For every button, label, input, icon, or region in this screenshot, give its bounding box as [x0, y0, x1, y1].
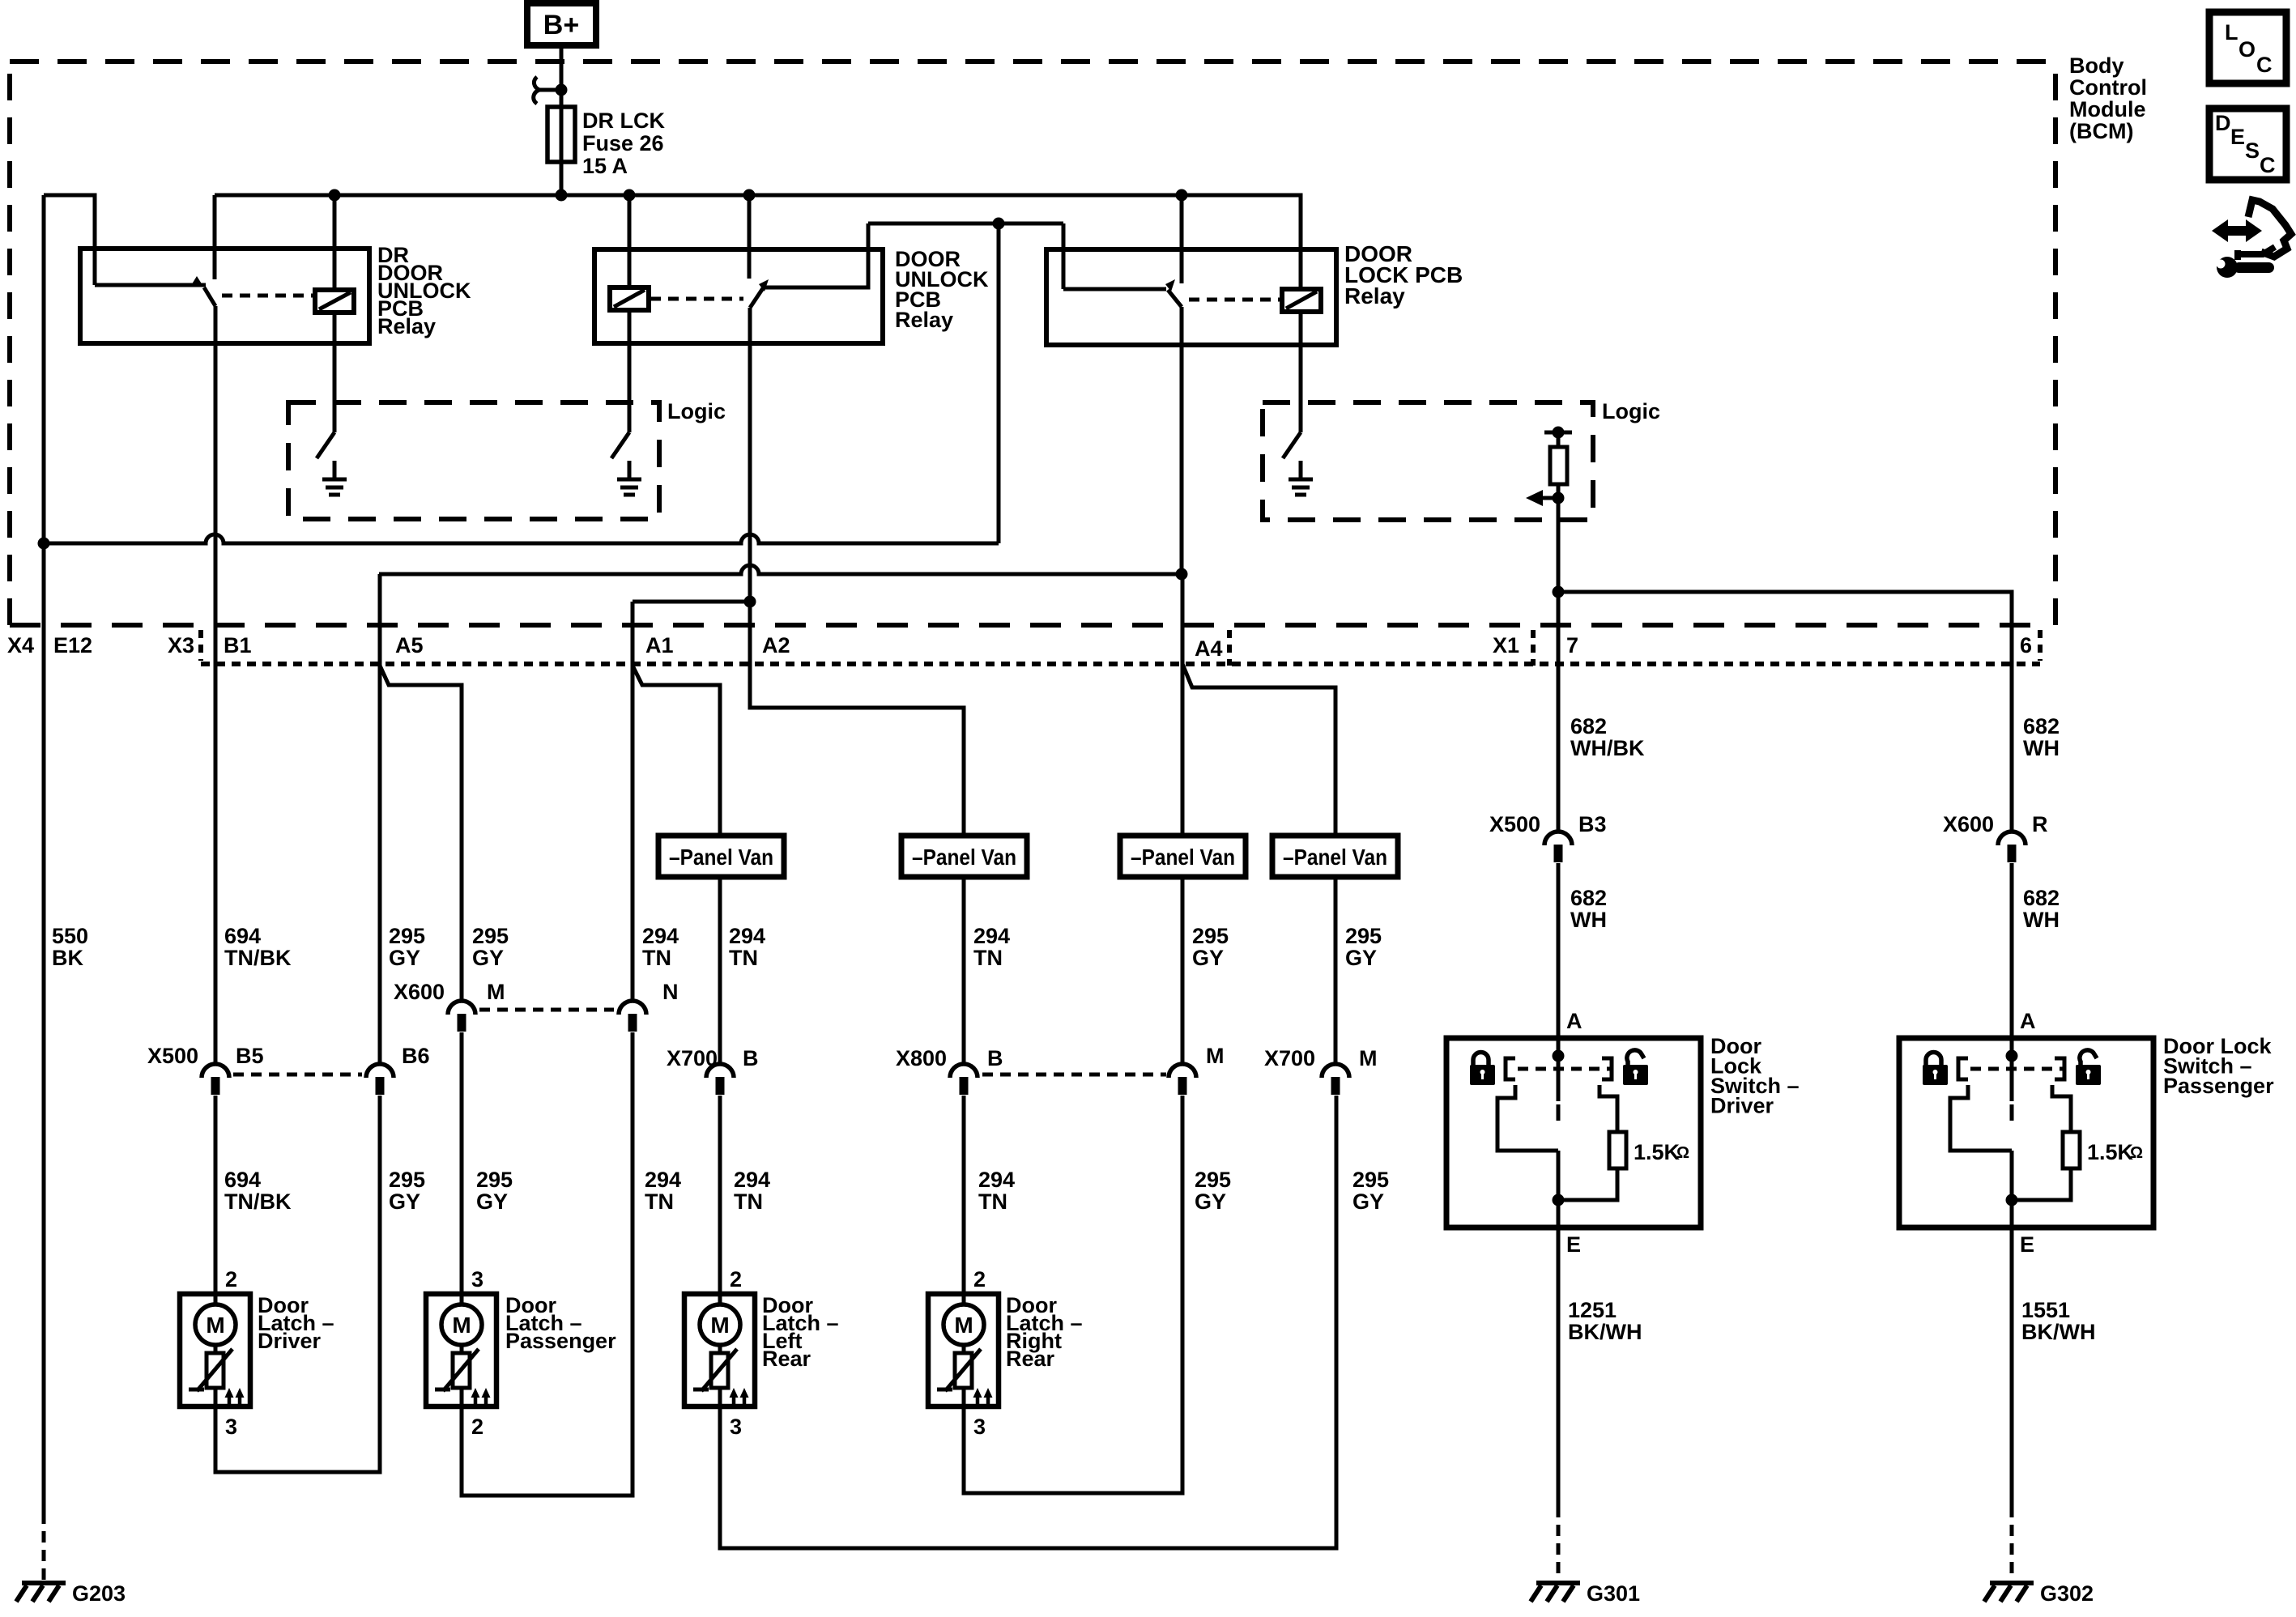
- junction dot fuse clip: [556, 84, 568, 96]
- wire K2 output down to A1/A2: [748, 308, 752, 602]
- junction dot bus at K3 feed: [1176, 189, 1188, 202]
- connector cap X1: [1531, 630, 1536, 666]
- svg-text:1251: 1251: [1568, 1298, 1617, 1322]
- label wire 295 GY col7 lower: [1195, 1168, 1231, 1214]
- wire 295 GY A5 to B6: [378, 574, 382, 1063]
- svg-text:E: E: [2230, 125, 2245, 149]
- svg-text:X700: X700: [1264, 1046, 1315, 1070]
- svg-text:DR LCK: DR LCK: [582, 109, 665, 133]
- logic feed stub bar: [1544, 431, 1572, 435]
- svg-text:2: 2: [471, 1415, 483, 1439]
- svg-text:295: 295: [1192, 924, 1229, 948]
- DESC reference box: [2209, 109, 2286, 180]
- junction dot A1/A2 node: [744, 596, 756, 608]
- label relay K3 DOOR LOCK PCB Relay: [1344, 241, 1463, 309]
- svg-text:Driver: Driver: [1710, 1094, 1774, 1118]
- junction dot bus at K2 feed: [743, 189, 756, 202]
- svg-text:X600: X600: [1943, 812, 1994, 836]
- svg-text:682: 682: [1570, 714, 1607, 738]
- label X500 right: [1489, 812, 1540, 836]
- wire 294 TN X700-B to left rear latch: [718, 1096, 722, 1294]
- wire net W to relay contacts: [868, 222, 1063, 226]
- svg-text:GY: GY: [476, 1189, 508, 1214]
- svg-text:2: 2: [730, 1267, 742, 1291]
- svg-text:294: 294: [734, 1168, 770, 1192]
- svg-text:GY: GY: [1195, 1189, 1226, 1214]
- label wire 694 TN/BK lower: [224, 1168, 292, 1214]
- svg-text:Rear: Rear: [762, 1347, 811, 1371]
- BCM dashed border top: [10, 59, 2055, 64]
- svg-text:Passenger: Passenger: [2163, 1074, 2274, 1098]
- svg-text:A5: A5: [395, 633, 424, 657]
- label pin A4: [1195, 636, 1223, 661]
- relay K3 arm riser from ground net: [1062, 223, 1066, 289]
- svg-text:GY: GY: [1192, 946, 1224, 970]
- label wire 682 WH col right lower: [2023, 886, 2060, 932]
- svg-text:Body: Body: [2069, 53, 2124, 78]
- relay K2 mech link dashed: [650, 297, 743, 301]
- label pin B X700: [743, 1046, 759, 1070]
- relay K1 coil box: [315, 290, 354, 313]
- wire rail A riser: [997, 223, 1001, 543]
- wire dashed to G301: [1557, 1506, 1561, 1580]
- svg-text:BK: BK: [52, 946, 83, 970]
- label G203: [72, 1581, 126, 1606]
- label wire 294 TN col6 upper: [973, 924, 1010, 970]
- connector row long dashed: [10, 623, 2049, 628]
- svg-text:TN: TN: [729, 946, 758, 970]
- svg-text:TN: TN: [642, 946, 671, 970]
- svg-text:3: 3: [471, 1267, 483, 1291]
- connector X600-N: [619, 1001, 646, 1032]
- relay K1 fixed contact from bus: [213, 195, 217, 279]
- door latch passenger (motor M): [426, 1267, 616, 1439]
- svg-text:295: 295: [472, 924, 509, 948]
- svg-text:M: M: [452, 1313, 471, 1338]
- fuse holder clip: [534, 77, 561, 104]
- wire ground feed bridge (550 BK to relay arm): [44, 195, 95, 285]
- wire coil K2 to logic switch: [628, 310, 632, 432]
- wire coil K1 from bus: [333, 195, 337, 290]
- label wire 294 TN col5 lower: [734, 1168, 770, 1214]
- relay K3 arm: [1063, 287, 1166, 291]
- connector X500-B3: [1544, 832, 1572, 862]
- wire 294 TN PV2 to X800-B: [962, 877, 966, 1063]
- label pin B X800: [987, 1046, 1003, 1070]
- label X500: [147, 1044, 198, 1068]
- door latch left rear (motor M): [684, 1267, 839, 1439]
- junction dot bus at fuse: [556, 189, 568, 202]
- label Logic 2: [1602, 399, 1660, 423]
- svg-text:X3: X3: [168, 633, 194, 657]
- connector X800-B: [950, 1064, 978, 1095]
- wire 295 GY M to passenger latch: [460, 1032, 464, 1294]
- svg-text:O: O: [2238, 37, 2256, 62]
- svg-text:Ω: Ω: [1676, 1144, 1689, 1162]
- svg-text:A: A: [1566, 1009, 1582, 1033]
- option box -Panel Van 2: [901, 836, 1027, 877]
- svg-text:294: 294: [978, 1168, 1015, 1192]
- label wire 694 TN/BK upper: [224, 924, 292, 970]
- label relay K1 DR DOOR UNLOCK PCB Relay: [377, 243, 471, 338]
- svg-text:Relay: Relay: [895, 308, 953, 332]
- svg-text:295: 295: [1195, 1168, 1231, 1192]
- junction dot net W riser: [993, 218, 1005, 230]
- relay K1 arm: [95, 283, 206, 287]
- svg-text:M: M: [954, 1313, 973, 1338]
- relay K1 mech link dashed: [222, 294, 313, 298]
- svg-text:B1: B1: [224, 633, 252, 657]
- svg-text:15 A: 15 A: [582, 154, 628, 178]
- svg-text:G203: G203: [72, 1581, 126, 1606]
- ground G301: [1531, 1583, 1580, 1602]
- svg-text:B+: B+: [543, 10, 579, 40]
- svg-text:GY: GY: [389, 1189, 420, 1214]
- svg-text:7: 7: [1566, 633, 1578, 657]
- option box -Panel Van 4: [1272, 836, 1398, 877]
- relay K1 blade: [204, 287, 215, 306]
- svg-text:–Panel Van: –Panel Van: [912, 845, 1016, 870]
- svg-text:TN/BK: TN/BK: [224, 946, 292, 970]
- svg-text:A4: A4: [1195, 636, 1223, 661]
- wire K3 output down to rail: [1180, 307, 1184, 574]
- battery feed B+ box: [527, 3, 596, 45]
- relay K2 NC contact wire: [765, 223, 868, 287]
- svg-text:Logic: Logic: [667, 399, 726, 423]
- logic switch 3 blade: [1283, 432, 1301, 458]
- svg-text:M: M: [1359, 1046, 1378, 1070]
- ground symbol logic switch 2: [617, 461, 641, 495]
- link X600 M-N dashed: [479, 1008, 614, 1012]
- wire ground rail A with hops: [44, 534, 999, 543]
- label fuse DR LCK / Fuse 26 / 15 A: [582, 109, 665, 178]
- svg-text:B: B: [987, 1046, 1003, 1070]
- wire main B+ bus: [215, 195, 1301, 289]
- label pin A2: [762, 633, 790, 657]
- label pin M X800: [1206, 1044, 1225, 1068]
- junction dot arrow node: [1553, 492, 1565, 504]
- connector X600-R: [1998, 832, 2026, 862]
- svg-text:694: 694: [224, 1168, 261, 1192]
- svg-text:X500: X500: [1489, 812, 1540, 836]
- junction dot resistor top: [1553, 427, 1565, 439]
- label X600 right: [1943, 812, 1994, 836]
- junction dot X1 branch: [1553, 586, 1565, 598]
- svg-text:Ω: Ω: [2130, 1144, 2143, 1162]
- label wire 294 TN col6 lower: [978, 1168, 1015, 1214]
- label X800: [896, 1046, 947, 1070]
- BCM dashed border right: [2053, 62, 2058, 625]
- label pin A1: [645, 633, 674, 657]
- label X600: [394, 980, 445, 1004]
- svg-text:M: M: [487, 980, 505, 1004]
- svg-text:R: R: [2032, 812, 2048, 836]
- svg-text:(BCM): (BCM): [2069, 119, 2133, 143]
- label pin R: [2032, 812, 2048, 836]
- svg-text:3: 3: [225, 1415, 237, 1439]
- svg-text:TN: TN: [978, 1189, 1007, 1214]
- label wire 682 WH driver: [1570, 886, 1607, 932]
- label pin N X600: [662, 980, 679, 1004]
- svg-text:550: 550: [52, 924, 88, 948]
- svg-text:D: D: [2215, 111, 2231, 135]
- relay K3 coil box: [1282, 289, 1321, 312]
- label X700 left: [667, 1046, 718, 1070]
- wire A4 jog to Panel Van 4: [1182, 664, 1335, 836]
- relay K1 arm arrowhead: [190, 276, 202, 287]
- svg-text:BK/WH: BK/WH: [2021, 1320, 2095, 1344]
- label relay K2 DOOR UNLOCK PCB Relay: [895, 247, 989, 332]
- svg-text:X1: X1: [1493, 633, 1519, 657]
- door lock switch driver: [1446, 1009, 1800, 1257]
- svg-text:Module: Module: [2069, 97, 2146, 121]
- svg-text:G302: G302: [2040, 1581, 2094, 1606]
- svg-text:1.5K: 1.5K: [1634, 1140, 1680, 1164]
- svg-text:3: 3: [730, 1415, 742, 1439]
- label X4: [7, 633, 34, 657]
- svg-text:BK/WH: BK/WH: [1568, 1320, 1642, 1344]
- relay K3 arm arrowhead: [1165, 279, 1175, 291]
- svg-text:G301: G301: [1587, 1581, 1640, 1606]
- label wire 1551 BK/WH: [2021, 1298, 2095, 1344]
- wire 295 GY PV3 to M: [1181, 877, 1185, 1063]
- svg-text:694: 694: [224, 924, 261, 948]
- wire 294 TN PV1 to X700-B: [718, 877, 722, 1063]
- ground G302: [1984, 1583, 2034, 1602]
- svg-text:B3: B3: [1578, 812, 1607, 836]
- label wire 682 WH/BK: [1570, 714, 1645, 760]
- svg-text:295: 295: [476, 1168, 513, 1192]
- svg-text:WH: WH: [2023, 908, 2060, 932]
- label Logic 1: [667, 399, 726, 423]
- wire A2 to Panel Van 2: [750, 602, 964, 836]
- label pin A5: [395, 633, 424, 657]
- svg-text:Logic: Logic: [1602, 399, 1660, 423]
- svg-text:Relay: Relay: [377, 314, 436, 338]
- svg-text:Rear: Rear: [1006, 1347, 1055, 1371]
- svg-text:294: 294: [729, 924, 765, 948]
- svg-text:Relay: Relay: [1344, 283, 1405, 309]
- label wire 295 GY col1 lower: [389, 1168, 425, 1214]
- relay K3 feed contact from bus: [1180, 195, 1184, 283]
- wire 295 GY PV4 to X700-M: [1334, 877, 1338, 1063]
- fuse F26 DR LCK 15A body: [547, 107, 575, 162]
- wire 294 TN A1 to N: [631, 602, 635, 1000]
- label wire 295 GY col8 upper: [1345, 924, 1382, 970]
- svg-text:–Panel Van: –Panel Van: [1131, 845, 1235, 870]
- svg-text:X500: X500: [147, 1044, 198, 1068]
- connector X600-M: [448, 1001, 475, 1032]
- resistor R-logic body: [1550, 432, 1567, 498]
- label pin M X600: [487, 980, 505, 1004]
- wire dashed to G302: [2010, 1506, 2014, 1580]
- svg-text:1.5K: 1.5K: [2087, 1140, 2134, 1164]
- relay K1 DR DOOR UNLOCK PCB box: [80, 249, 369, 343]
- label wire 295 GY col1 upper: [389, 924, 425, 970]
- LOC reference box: [2209, 12, 2286, 83]
- relay K3 mech link dashed: [1189, 298, 1280, 302]
- relay K3 blade: [1168, 290, 1182, 307]
- label wire 294 TN col4 lower: [645, 1168, 681, 1214]
- label X700 right: [1264, 1046, 1315, 1070]
- svg-text:WH/BK: WH/BK: [1570, 736, 1645, 760]
- label wire 294 TN A2 upper: [729, 924, 765, 970]
- svg-text:6: 6: [2020, 633, 2032, 657]
- wire B+ to fuse to bus: [560, 45, 564, 195]
- svg-text:N: N: [662, 980, 679, 1004]
- svg-text:C: C: [2260, 153, 2276, 177]
- connector row tight dashed: [201, 662, 2040, 666]
- door lock switch passenger: [1899, 1009, 2274, 1257]
- wire A1 jog to Panel Van 1: [633, 666, 720, 836]
- label wire 550 BK: [52, 924, 88, 970]
- option box -Panel Van 1: [658, 836, 784, 877]
- svg-text:X800: X800: [896, 1046, 947, 1070]
- svg-text:294: 294: [642, 924, 679, 948]
- relay K2 DOOR UNLOCK PCB box: [594, 249, 883, 343]
- wire 550 BK dashed to ground: [42, 1513, 46, 1580]
- label pin M X700: [1359, 1046, 1378, 1070]
- label wire 295 GY col2 upper: [472, 924, 509, 970]
- svg-text:682: 682: [1570, 886, 1607, 910]
- svg-text:TN: TN: [645, 1189, 674, 1214]
- svg-text:WH: WH: [2023, 736, 2060, 760]
- connector X700-B: [706, 1064, 734, 1095]
- svg-text:A: A: [2020, 1009, 2036, 1033]
- junction dot rail A to 550 BK: [38, 538, 50, 550]
- svg-text:–Panel Van: –Panel Van: [1283, 845, 1387, 870]
- svg-text:294: 294: [973, 924, 1010, 948]
- svg-text:1551: 1551: [2021, 1298, 2070, 1322]
- svg-text:3: 3: [973, 1415, 986, 1439]
- svg-text:X700: X700: [667, 1046, 718, 1070]
- svg-text:A1: A1: [645, 633, 674, 657]
- label pin 7: [1566, 633, 1578, 657]
- wire 694 TN/BK B1 to B5: [214, 306, 218, 1063]
- label Body Control Module (BCM): [2069, 53, 2147, 143]
- label wire 295 GY col7 upper: [1192, 924, 1229, 970]
- svg-text:TN: TN: [973, 946, 1003, 970]
- wire right rear latch return to X800-M: [964, 1096, 1182, 1493]
- wire 1551 BK/WH to G302: [2010, 1228, 2014, 1506]
- svg-text:A2: A2: [762, 633, 790, 657]
- svg-text:295: 295: [1345, 924, 1382, 948]
- svg-text:B: B: [743, 1046, 759, 1070]
- connector cap X3: [198, 630, 203, 661]
- option box -Panel Van 3: [1120, 836, 1246, 877]
- svg-text:GY: GY: [472, 946, 504, 970]
- label pin B6: [402, 1044, 430, 1068]
- svg-text:E: E: [1566, 1232, 1581, 1257]
- connector cap right end: [2038, 630, 2043, 661]
- svg-text:WH: WH: [1570, 908, 1607, 932]
- svg-text:B5: B5: [236, 1044, 264, 1068]
- wire lock rail B with hop: [379, 565, 1182, 574]
- svg-text:TN/BK: TN/BK: [224, 1189, 292, 1214]
- wire branch dot to A1: [633, 600, 750, 604]
- label wire 1251 BK/WH: [1568, 1298, 1642, 1344]
- label X1: [1493, 633, 1519, 657]
- svg-text:Driver: Driver: [258, 1329, 322, 1353]
- wire coil K2 from bus: [628, 195, 632, 287]
- relay K2 arm arrowhead: [759, 279, 769, 291]
- relay K2 coil box: [610, 287, 649, 310]
- svg-text:295: 295: [1352, 1168, 1389, 1192]
- svg-text:295: 295: [389, 924, 425, 948]
- svg-text:GY: GY: [389, 946, 420, 970]
- svg-text:L: L: [2225, 20, 2238, 45]
- junction dot bus at coil K1: [329, 189, 341, 202]
- svg-text:295: 295: [389, 1168, 425, 1192]
- svg-text:X4: X4: [7, 633, 34, 657]
- label pin 6: [2020, 633, 2032, 657]
- relay K2 blade: [750, 288, 763, 308]
- service icon arrows and wrench: [2212, 200, 2291, 278]
- link X500 B5-B6 dashed: [233, 1073, 362, 1077]
- svg-text:Passenger: Passenger: [505, 1329, 616, 1353]
- svg-text:E12: E12: [53, 633, 92, 657]
- label pin B5: [236, 1044, 264, 1068]
- wire 550 BK (E12 to ground): [42, 195, 46, 1513]
- svg-text:B6: B6: [402, 1044, 430, 1068]
- svg-text:682: 682: [2023, 714, 2060, 738]
- logic switch 2 blade: [611, 432, 629, 458]
- wire coil K1 to logic switch: [333, 313, 337, 432]
- wire 694 TN/BK B5 to latch: [214, 1096, 218, 1294]
- label X3: [168, 633, 194, 657]
- svg-text:GY: GY: [1345, 946, 1377, 970]
- svg-text:TN: TN: [734, 1189, 763, 1214]
- svg-text:Control: Control: [2069, 75, 2147, 100]
- wire 1251 BK/WH to G301: [1557, 1228, 1561, 1506]
- label wire 295 GY col2 lower: [476, 1168, 513, 1214]
- connector X800-M: [1169, 1064, 1196, 1095]
- label wire 682 WH col right upper: [2023, 714, 2060, 760]
- wire 295 GY A4 to PV3: [1181, 574, 1185, 836]
- svg-text:GY: GY: [1352, 1189, 1384, 1214]
- label pin E12: [53, 633, 92, 657]
- connector X500-B6: [366, 1064, 394, 1095]
- ground symbol logic switch 3: [1289, 461, 1313, 495]
- wire driver latch return to B6: [215, 1096, 380, 1472]
- wire coil K3 to logic switch: [1299, 312, 1303, 432]
- BCM dashed border left: [7, 62, 12, 625]
- wire branch to X1-6: [1558, 592, 2012, 830]
- wire 682 WH B3 to switch: [1557, 863, 1561, 1056]
- svg-text:C: C: [2256, 53, 2273, 77]
- logic output arrow: [1526, 490, 1558, 506]
- logic box 2 dashed: [1263, 402, 1593, 520]
- wire 294 TN X800-B to right rear latch: [962, 1096, 966, 1294]
- svg-text:S: S: [2245, 138, 2260, 163]
- label G302: [2040, 1581, 2094, 1606]
- wire A5 branch jog to X600-M: [380, 666, 462, 1000]
- connector X700-M: [1322, 1064, 1349, 1095]
- connector cap X3 right: [1227, 630, 1232, 666]
- svg-text:2: 2: [225, 1267, 237, 1291]
- logic box 1 dashed: [288, 402, 659, 519]
- wire passenger latch return to N: [462, 1032, 633, 1496]
- svg-text:M: M: [1206, 1044, 1225, 1068]
- door latch right rear (motor M): [928, 1267, 1083, 1439]
- svg-text:X600: X600: [394, 980, 445, 1004]
- svg-text:M: M: [206, 1313, 224, 1338]
- connector X500-B5: [202, 1064, 229, 1095]
- label G301: [1587, 1581, 1640, 1606]
- ground G203: [16, 1583, 66, 1602]
- label wire 294 TN A1 upper: [642, 924, 679, 970]
- label pin B3: [1578, 812, 1607, 836]
